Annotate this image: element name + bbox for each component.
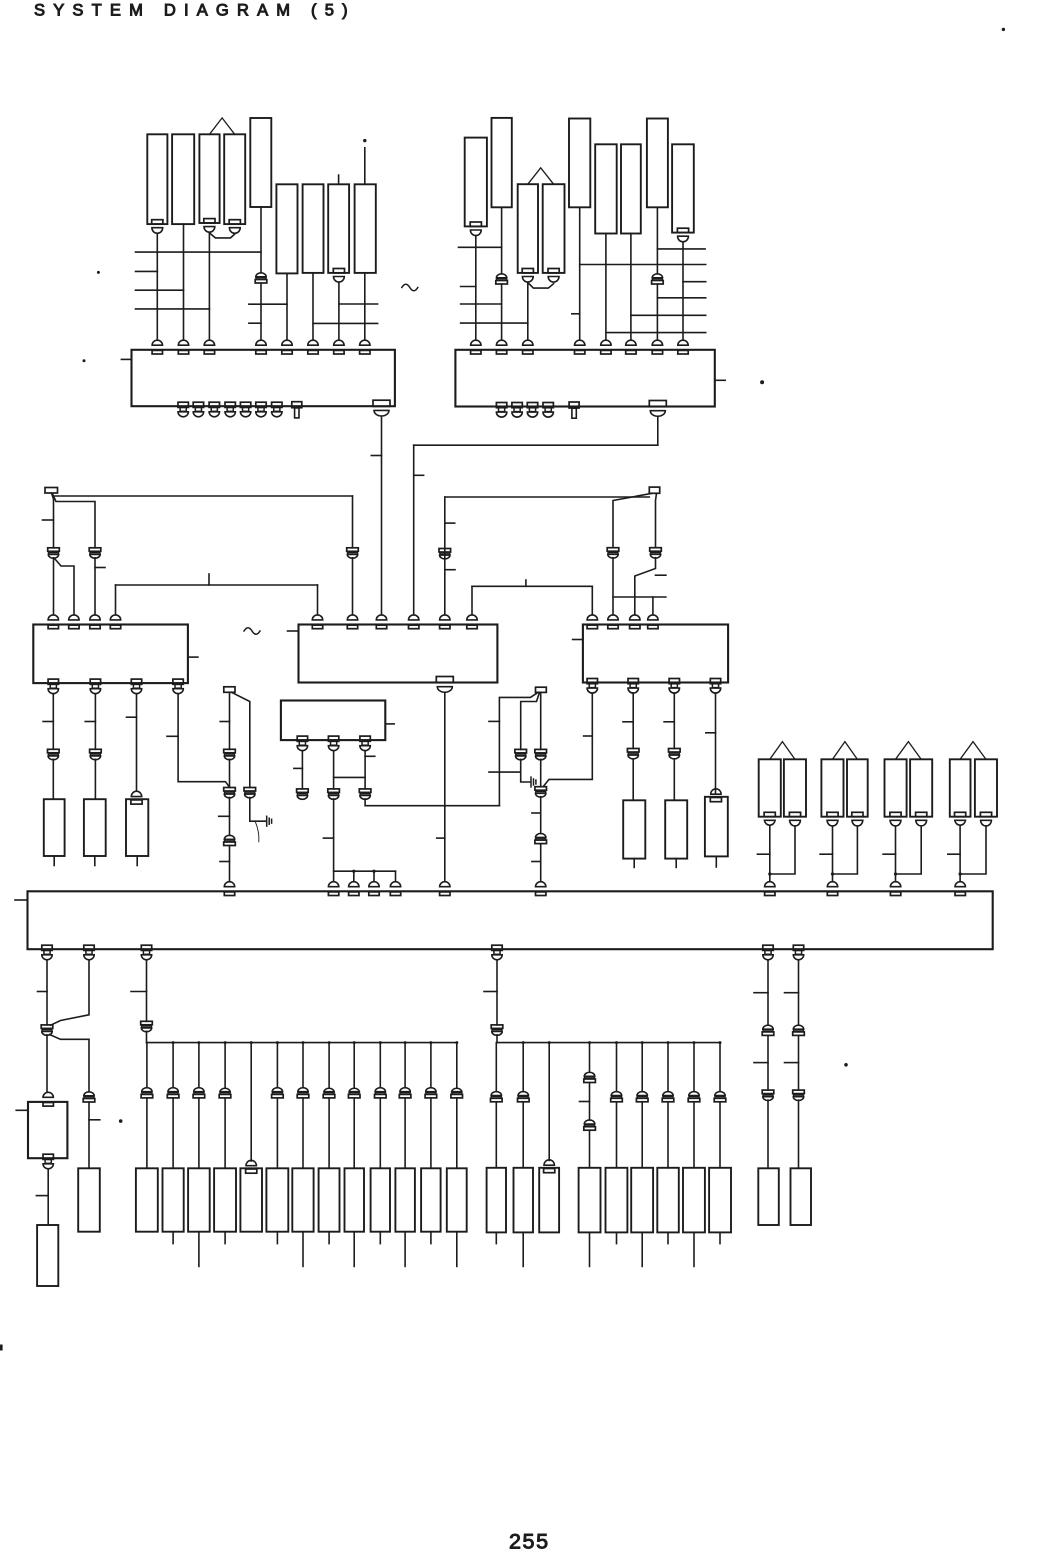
wire	[579, 207, 581, 340]
node dot	[831, 872, 834, 875]
wire	[548, 1043, 550, 1161]
connector CNC3	[539, 1168, 559, 1233]
connector pair 4 left	[950, 759, 971, 816]
junction box J312	[224, 687, 235, 693]
node dot	[844, 1063, 848, 1067]
wire stub	[667, 1232, 669, 1243]
wire from U5	[544, 693, 593, 786]
wire	[328, 1043, 330, 1088]
inline connector	[452, 1088, 462, 1091]
cable hat	[833, 742, 858, 760]
connector pair 1 left	[759, 759, 781, 816]
cable hat	[896, 742, 922, 760]
wire	[693, 1102, 695, 1168]
pin U2 bottom 2	[512, 403, 522, 408]
node dot	[250, 1041, 253, 1044]
wire stub	[224, 1232, 226, 1244]
wire	[641, 1043, 643, 1092]
wire	[338, 282, 340, 340]
node dot	[276, 1041, 279, 1044]
pin U7 top 3	[349, 882, 359, 887]
pin U7 top 10	[890, 882, 900, 887]
pin U7 bottom 4	[492, 945, 502, 950]
connector CN206	[595, 144, 617, 233]
connector CN302	[84, 799, 106, 856]
wire	[522, 1102, 524, 1168]
pin U5 top 4	[648, 615, 658, 620]
pin U3 bottom 1	[48, 679, 58, 684]
wire	[501, 207, 503, 273]
connector CN101	[147, 134, 167, 224]
connector pair 2 right plug	[852, 812, 863, 816]
inline connector J333	[491, 1025, 503, 1029]
node dot	[353, 1041, 356, 1044]
wire bracket	[55, 559, 75, 615]
pin U2 top 2	[496, 340, 506, 345]
wire to ground	[250, 798, 266, 822]
inline connector	[220, 1088, 230, 1091]
wire stub up	[364, 148, 366, 185]
connector CNB5	[240, 1168, 262, 1231]
inline connector	[194, 1088, 204, 1092]
pin U3 top 4	[110, 615, 120, 620]
wire	[960, 826, 986, 874]
board block U2	[455, 350, 714, 407]
pin U1 bottom 5	[240, 402, 250, 407]
wire tick	[656, 574, 666, 576]
connector CN311	[37, 1225, 58, 1286]
wire	[317, 585, 319, 615]
pin U7 bottom 3	[141, 945, 151, 950]
wire	[540, 692, 542, 749]
pin U3 top 1	[48, 615, 58, 620]
pin U1 top 8	[360, 340, 370, 345]
wire tick	[220, 721, 229, 723]
wire	[456, 1043, 458, 1088]
pin U1 top 7	[334, 340, 344, 345]
inline connector	[584, 1120, 595, 1124]
board block U7 long bus	[28, 891, 993, 949]
pin box top	[43, 1092, 53, 1097]
wire	[52, 493, 54, 548]
wire stub	[198, 1232, 200, 1267]
wire	[693, 1043, 695, 1092]
wire	[616, 1043, 618, 1092]
wire stub	[641, 1232, 643, 1266]
wire tick	[85, 721, 95, 723]
node dot	[197, 1041, 200, 1044]
wire tick	[706, 732, 716, 734]
wire	[589, 1043, 591, 1073]
connector CN301	[44, 799, 65, 856]
wire	[379, 1043, 381, 1088]
inline connector J208	[652, 274, 662, 278]
pin U5 bottom 1	[587, 679, 597, 684]
wire stub left	[573, 639, 583, 641]
wire	[46, 1035, 48, 1092]
wire	[53, 495, 353, 497]
wire tie	[313, 322, 378, 324]
inline connector J324	[536, 833, 546, 837]
wire stub	[715, 856, 717, 867]
inline connector	[627, 749, 639, 753]
inline connector	[637, 1092, 647, 1096]
wire	[208, 233, 210, 340]
wire tick	[414, 474, 424, 476]
wire long drop U1-U4	[381, 417, 383, 615]
wire	[88, 1102, 90, 1168]
connector pair 3 left	[885, 759, 907, 816]
wire	[115, 585, 117, 615]
wire	[312, 273, 314, 340]
connector CN102	[172, 134, 194, 224]
connector CND2	[791, 1168, 812, 1225]
wire	[224, 1043, 226, 1088]
inline connector	[762, 1090, 774, 1094]
wire tick	[532, 812, 541, 814]
wire tick	[127, 716, 137, 718]
node dot	[641, 1041, 644, 1044]
inline connector	[584, 1072, 595, 1076]
wire tick	[36, 1195, 47, 1197]
inline connector J316	[244, 788, 256, 792]
wire	[373, 871, 375, 882]
wire tick	[371, 455, 381, 457]
pin U4 top 5	[440, 615, 450, 620]
wire	[612, 558, 614, 615]
connector mate	[544, 1160, 554, 1165]
wire tick	[484, 991, 497, 993]
connector CN305	[665, 800, 687, 858]
pin U1 bottom 3	[209, 402, 219, 407]
connector CN104	[224, 134, 245, 224]
wire	[276, 1043, 278, 1088]
wire tick	[754, 1062, 768, 1064]
wire jog in	[51, 960, 90, 1025]
wire	[404, 1043, 406, 1088]
wire	[501, 284, 503, 340]
pin U1 bottom 1	[178, 402, 188, 407]
wire	[527, 283, 529, 341]
cable hat	[770, 742, 795, 760]
connector pair 1 left plug	[764, 812, 775, 816]
pin U1 top 4	[256, 340, 266, 345]
connector CN103	[199, 134, 219, 223]
wire	[632, 759, 634, 801]
pin U6 bottom 3	[360, 736, 370, 741]
cable hat	[960, 742, 986, 760]
wire	[767, 960, 769, 1025]
wire tie	[489, 771, 521, 773]
connector CNB11	[395, 1168, 415, 1231]
wire	[833, 826, 858, 874]
wire	[521, 692, 540, 749]
wire	[613, 493, 652, 547]
node dot	[1002, 28, 1005, 31]
wire fan 3	[657, 297, 705, 299]
wire tick	[219, 815, 230, 817]
wire	[522, 1043, 524, 1092]
inline connector J321	[515, 749, 527, 753]
connector CN108	[328, 184, 349, 273]
wire	[667, 1043, 669, 1092]
connector CNB8	[319, 1168, 340, 1231]
pin U1 top 5	[282, 340, 292, 345]
pin U3 bottom 3	[131, 679, 141, 684]
wire tick	[664, 721, 674, 723]
wire tick	[38, 991, 48, 993]
connector CN209	[672, 144, 694, 232]
inline connector	[669, 749, 681, 753]
wire stub	[495, 1232, 497, 1243]
wire	[682, 242, 684, 340]
pin U7 bottom 1	[42, 945, 52, 950]
wire stub	[353, 1232, 355, 1267]
pin U4 top 2	[347, 615, 357, 620]
connector CNB10	[371, 1168, 390, 1231]
wire stub	[456, 1232, 458, 1267]
connector CN204	[543, 184, 565, 273]
pin U2 top 4	[575, 340, 585, 345]
connector CNB12	[421, 1168, 441, 1231]
wire	[364, 273, 366, 340]
connector pair 3 right	[910, 759, 932, 816]
junction box J306	[649, 487, 659, 493]
wire	[198, 1098, 200, 1168]
pin U7 top 7	[536, 882, 546, 887]
inline connector	[142, 1088, 152, 1092]
wire	[250, 1043, 252, 1161]
wire	[630, 234, 632, 341]
node dot	[372, 870, 375, 873]
inline connector	[715, 1092, 725, 1096]
connector CN304	[623, 800, 645, 858]
connector pair 2 right	[847, 759, 868, 816]
connector CN203	[518, 184, 538, 273]
pin U2 top 3	[523, 340, 533, 345]
pin U4 top 4	[409, 615, 419, 620]
pin U3 top 3	[90, 615, 100, 620]
pin U2 top 5	[601, 340, 611, 345]
wire tick	[365, 755, 375, 757]
inline connector J332	[141, 1021, 153, 1025]
inline connector J310	[48, 749, 60, 753]
wire stub	[404, 1232, 406, 1267]
connector CN208	[647, 119, 668, 208]
node dot	[379, 1041, 382, 1044]
pin U7 bottom 2	[84, 945, 94, 950]
wire	[260, 207, 262, 273]
wire	[540, 797, 542, 834]
wire stub	[302, 1232, 304, 1267]
wire	[767, 1100, 769, 1168]
connector CN207	[621, 144, 641, 233]
wire	[364, 751, 366, 789]
wire	[769, 826, 771, 882]
wire tick	[95, 567, 105, 569]
inline connector J307	[607, 548, 619, 552]
svg-text:255: 255	[509, 1530, 550, 1554]
wire tick	[754, 992, 768, 994]
pin U5 top 2	[608, 615, 618, 620]
wire fan rail	[147, 1042, 457, 1044]
pin U7 top 9	[827, 882, 837, 887]
wire tick	[167, 735, 178, 737]
wire	[472, 585, 592, 587]
node dot	[588, 1041, 591, 1044]
wire	[353, 1098, 355, 1168]
board block U5	[583, 625, 728, 683]
wire	[540, 844, 542, 882]
pin U1 bottom 7	[272, 402, 282, 407]
connector CNB9	[345, 1168, 365, 1231]
tilde break mark	[244, 628, 260, 635]
pin U4 bottom wide	[436, 677, 453, 683]
connector CN306 mate	[711, 789, 721, 794]
pin U2 bottom wide	[649, 401, 666, 407]
pin U7 bottom 6	[793, 945, 803, 950]
pin box bottom	[43, 1154, 53, 1159]
wire	[616, 1102, 618, 1168]
connector CN203 plug	[522, 269, 533, 273]
wire fan rail	[497, 1042, 719, 1044]
wire stub	[328, 1232, 330, 1244]
wire fan 5	[606, 332, 706, 334]
wire	[719, 1043, 721, 1092]
pin U2 top 8	[678, 340, 688, 345]
wire	[183, 224, 185, 340]
connector CN306	[705, 797, 728, 857]
wire	[333, 751, 335, 789]
node dot	[172, 1041, 175, 1044]
connector pair 4 right	[975, 759, 997, 816]
wire tick	[757, 853, 769, 855]
pin U2 top 1	[471, 340, 481, 345]
wire stub	[430, 1232, 432, 1244]
wire stub	[461, 303, 502, 305]
wire	[379, 1098, 381, 1168]
inline connector	[324, 1088, 334, 1091]
wire tick	[294, 767, 303, 769]
wire	[798, 1036, 800, 1091]
wire	[540, 759, 542, 786]
pin U7 top 1	[224, 882, 234, 887]
wire	[895, 826, 897, 882]
wire tick	[948, 853, 960, 855]
node dot	[429, 1041, 432, 1044]
connector CNB3	[188, 1168, 210, 1231]
wire	[94, 759, 96, 799]
wire	[352, 558, 354, 615]
connector pair 3 right plug	[916, 812, 927, 816]
wire tie	[339, 303, 378, 305]
pin U4 top 1	[312, 615, 322, 620]
inline connector J303	[89, 548, 101, 552]
wire	[770, 826, 795, 874]
node dot	[719, 1041, 722, 1044]
wire tick	[43, 721, 53, 723]
wire	[178, 694, 229, 787]
pin U4 top 3	[376, 615, 386, 620]
board block U4	[299, 625, 498, 683]
wire stub	[693, 1232, 695, 1266]
pin U7 top 11	[955, 882, 965, 887]
wire stub	[589, 1232, 591, 1266]
inline connector	[426, 1088, 436, 1092]
wire tick	[883, 853, 895, 855]
wire	[767, 1036, 769, 1091]
wire tick	[89, 1119, 100, 1121]
wire	[333, 799, 335, 882]
wire brace CN103-CN104	[209, 233, 234, 238]
wire	[224, 1098, 226, 1168]
node dot	[224, 1041, 227, 1044]
wire to ground	[521, 759, 531, 782]
wire stub	[719, 1232, 721, 1243]
wire jog out	[50, 1035, 90, 1092]
connector CND1	[758, 1168, 779, 1225]
pin U6 bottom 2	[328, 736, 338, 741]
wire fan 2	[683, 281, 706, 283]
wire	[232, 692, 250, 787]
wire stub	[522, 1232, 524, 1266]
connector CN109	[355, 184, 376, 273]
connector CNC2	[514, 1168, 534, 1233]
wire	[156, 234, 158, 341]
board block U1	[132, 350, 395, 406]
inline connector	[375, 1088, 385, 1092]
connector CNB6	[266, 1168, 288, 1231]
connector CN205	[569, 119, 590, 208]
wire stub	[461, 322, 528, 324]
pin U5 bottom 3	[669, 679, 679, 684]
wire stub	[379, 1232, 381, 1244]
wire	[896, 826, 922, 874]
connector CN202	[492, 118, 512, 207]
inline connector	[763, 1025, 773, 1029]
inline connector J318	[328, 789, 340, 793]
wire	[673, 693, 675, 749]
wire tick	[131, 991, 147, 993]
pin U1 bottom 2	[193, 402, 203, 407]
wire tick	[489, 720, 499, 722]
inline connector	[298, 1088, 308, 1092]
wire tick	[532, 861, 541, 863]
wire	[495, 1102, 497, 1168]
pin U5 top 1	[587, 615, 597, 620]
wire	[146, 1098, 148, 1168]
inline connector J322	[535, 749, 547, 753]
wire fan	[334, 870, 396, 872]
wire stub	[338, 175, 340, 184]
connector CN104 plug	[229, 220, 240, 224]
inline connector	[518, 1092, 529, 1096]
wire bus stub 3	[136, 289, 184, 291]
wire	[353, 1043, 355, 1088]
pin U2 bottom 4	[543, 403, 553, 408]
wire stub right	[385, 723, 394, 725]
wire	[430, 1098, 432, 1168]
inline connector J317	[297, 789, 309, 793]
wire tick up	[525, 580, 527, 586]
wire	[116, 584, 318, 586]
connector CNC5	[606, 1168, 628, 1233]
node dot	[404, 1041, 407, 1044]
wire	[656, 493, 657, 547]
wire	[719, 1102, 721, 1168]
wire stub left	[16, 1109, 28, 1111]
node dot	[959, 872, 962, 875]
